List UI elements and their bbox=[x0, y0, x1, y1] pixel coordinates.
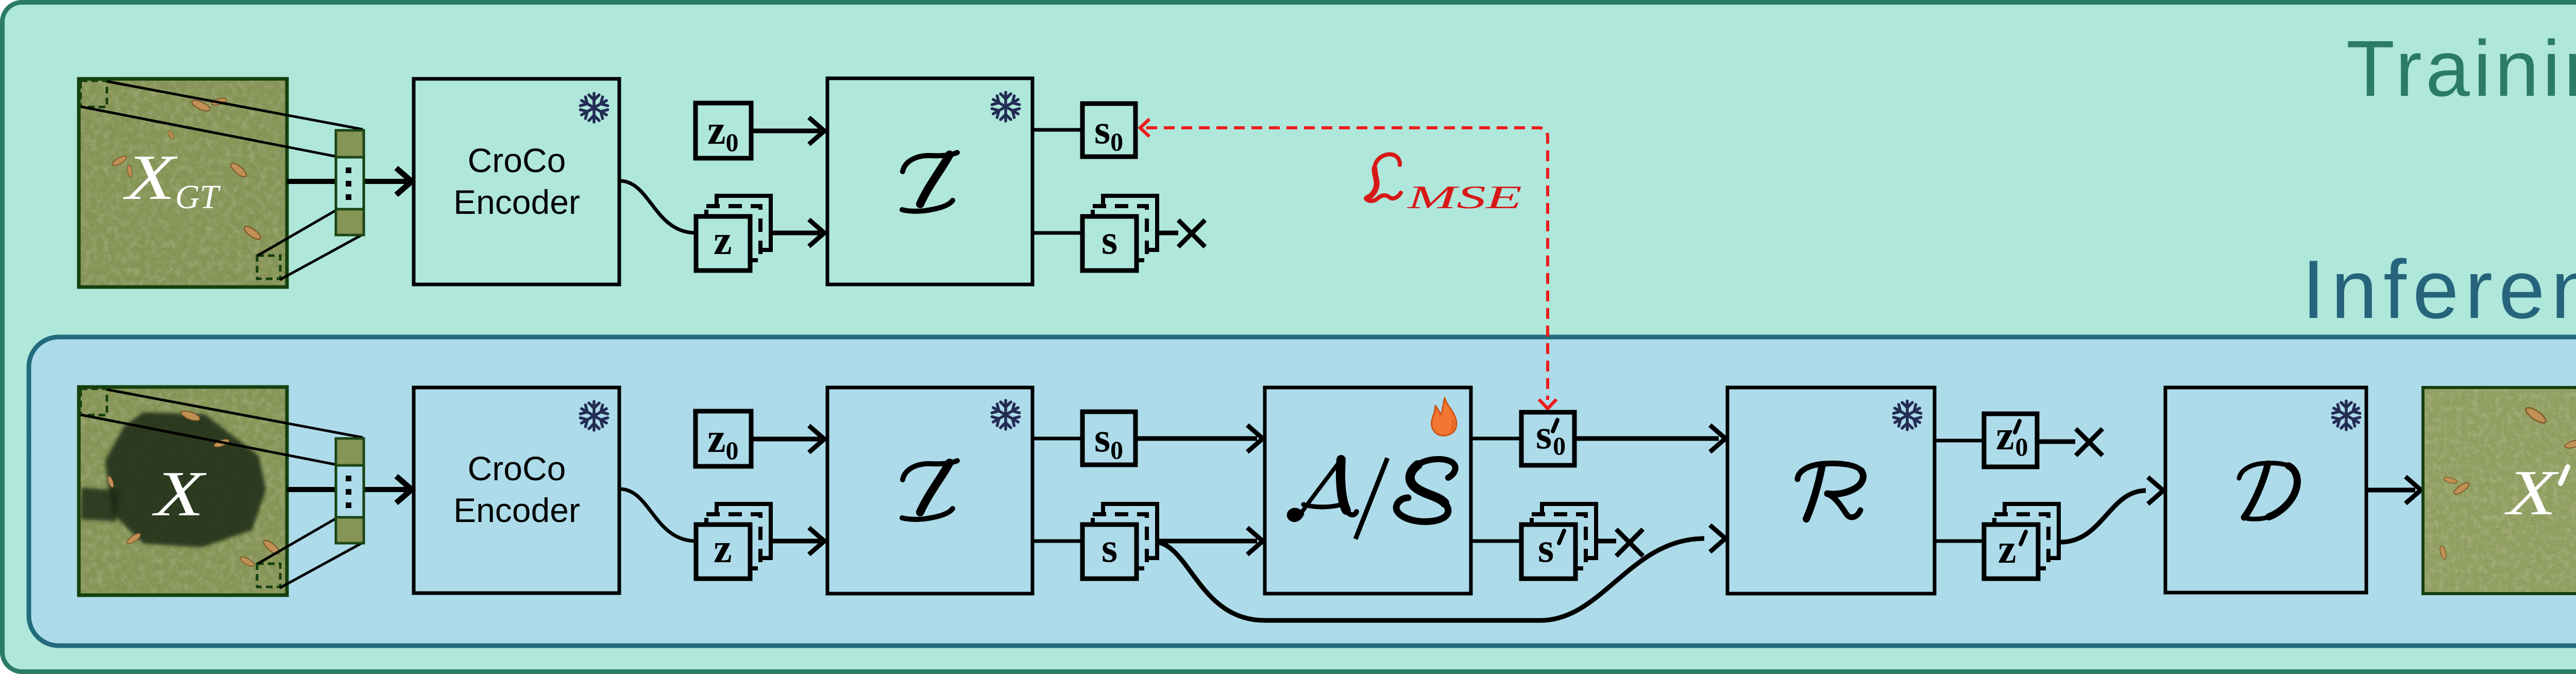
image X' bbox=[2423, 387, 2576, 594]
svg-text:Encoder: Encoder bbox=[453, 491, 580, 529]
wire z0 to I (inference) bbox=[751, 437, 820, 442]
token stack z' bbox=[1984, 504, 2059, 579]
snowflake D bbox=[2331, 401, 2361, 430]
wire patch line top B bbox=[81, 107, 337, 157]
wire patch line top B (inference) bbox=[81, 415, 337, 465]
token s0 (training) bbox=[1082, 104, 1136, 157]
token stack s' bbox=[1521, 504, 1596, 579]
script A glyph bbox=[1287, 460, 1357, 521]
wire z to I bbox=[771, 231, 820, 235]
wire I to s stack (inference) bbox=[1032, 540, 1082, 543]
snowflake CroCo training bbox=[579, 93, 609, 122]
wire s to discard bbox=[1157, 231, 1178, 235]
image X bbox=[79, 387, 287, 595]
wire patch line bottom A (inference) bbox=[258, 518, 337, 564]
wire CroCo to z tokens bbox=[620, 181, 696, 233]
interpolator I box (inference) bbox=[827, 387, 1032, 594]
svg-text:s: s bbox=[1538, 526, 1554, 571]
wire patch line top A (inference) bbox=[107, 390, 363, 437]
discard cross s' bbox=[1616, 529, 1643, 556]
script I glyph (inference) bbox=[902, 461, 957, 519]
token stack s (training) bbox=[1082, 196, 1157, 271]
token strip (inference) bbox=[336, 439, 364, 543]
script D glyph bbox=[2239, 463, 2297, 519]
snowflake R bbox=[1892, 401, 1922, 430]
token strip bbox=[336, 130, 364, 235]
wire I to s stack bbox=[1032, 231, 1082, 235]
snowflake CroCo inference bbox=[579, 401, 609, 430]
snowflake I inference bbox=[991, 400, 1021, 429]
interpolator I box (training) bbox=[827, 78, 1032, 284]
patch square (dashed, top-left) bbox=[81, 81, 107, 107]
svg-text:z: z bbox=[714, 526, 732, 571]
image X_GT bbox=[79, 79, 287, 287]
svg-text:Inference: Inference bbox=[2302, 243, 2576, 336]
discard cross z'0 bbox=[2076, 429, 2103, 456]
wire s0 to A/S bbox=[1136, 436, 1257, 441]
CroCo Encoder box (training) bbox=[414, 79, 619, 284]
wire CroCo to z tokens (inference) bbox=[620, 489, 696, 541]
inference panel bbox=[29, 337, 2576, 646]
wire z' to D bbox=[2061, 491, 2146, 542]
token s0 (inference) bbox=[1082, 412, 1136, 465]
token z'0 bbox=[1984, 413, 2037, 467]
svg-text:s: s bbox=[1101, 526, 1117, 571]
patch square (dashed, top-left, inference) bbox=[81, 389, 107, 415]
wire s to A/S bbox=[1157, 539, 1257, 544]
svg-text:z: z bbox=[1998, 527, 2016, 572]
patch square (dashed, bottom-right, inference) bbox=[257, 564, 280, 587]
token z0 (training) bbox=[696, 103, 751, 158]
wire z'0 to discard bbox=[2037, 440, 2075, 444]
svg-text:CroCo: CroCo bbox=[468, 141, 566, 179]
wire z to I (inference) bbox=[771, 539, 820, 544]
svg-text:X: X bbox=[151, 459, 207, 530]
wire patch line top A bbox=[107, 81, 363, 129]
token stack z (training) bbox=[696, 196, 771, 271]
snowflake I training bbox=[991, 92, 1021, 121]
token stack z (inference) bbox=[696, 504, 771, 579]
discard cross s bbox=[1178, 220, 1205, 247]
wire s' to discard bbox=[1596, 539, 1616, 544]
script S glyph bbox=[1396, 459, 1455, 521]
wire R to z'0 bbox=[1935, 439, 1984, 443]
wire image to CroCo encoder bbox=[287, 179, 407, 184]
script I glyph (training) bbox=[902, 153, 957, 211]
wire image X to CroCo encoder bbox=[287, 487, 407, 492]
wire A/S to s'0 bbox=[1471, 437, 1521, 441]
shadow in X bbox=[105, 412, 266, 547]
wire I to s0 bbox=[1032, 128, 1082, 132]
adapter A/S box bbox=[1265, 387, 1471, 594]
svg-text:s: s bbox=[1101, 217, 1117, 263]
token stack s (inference) bbox=[1082, 504, 1157, 579]
wire patch line bottom A bbox=[258, 210, 337, 256]
svg-text:Encoder: Encoder bbox=[453, 183, 580, 221]
wire s bypass to R bbox=[1157, 538, 1704, 620]
renderer R box bbox=[1727, 387, 1935, 594]
svg-text:z: z bbox=[714, 218, 732, 263]
patch square (dashed, bottom-right) bbox=[257, 256, 280, 279]
wire D to X' bbox=[2366, 488, 2415, 493]
wire patch line bottom B bbox=[280, 234, 363, 280]
wire patch line bottom B (inference) bbox=[280, 543, 363, 588]
wire s'0 to R bbox=[1574, 436, 1719, 441]
wire z0 to I bbox=[751, 129, 820, 133]
red dashed loss arrow bbox=[1140, 119, 1556, 409]
wire R to z' stack bbox=[1935, 540, 1984, 543]
CroCo Encoder box (inference) bbox=[414, 387, 619, 593]
svg-text:X: X bbox=[2504, 458, 2560, 529]
loss label L_MSE bbox=[1366, 154, 1401, 200]
script R glyph bbox=[1798, 463, 1863, 519]
wire I to s0 (inference) bbox=[1032, 437, 1082, 441]
wire A/S to s' stack bbox=[1471, 540, 1521, 543]
svg-text:CroCo: CroCo bbox=[468, 449, 566, 487]
token s'0 bbox=[1521, 412, 1574, 465]
decoder D box bbox=[2165, 387, 2366, 593]
svg-text:MSE: MSE bbox=[1406, 179, 1522, 215]
fire icon bbox=[1432, 398, 1456, 435]
token z0 (inference) bbox=[696, 411, 751, 466]
slash glyph bbox=[1355, 458, 1387, 539]
